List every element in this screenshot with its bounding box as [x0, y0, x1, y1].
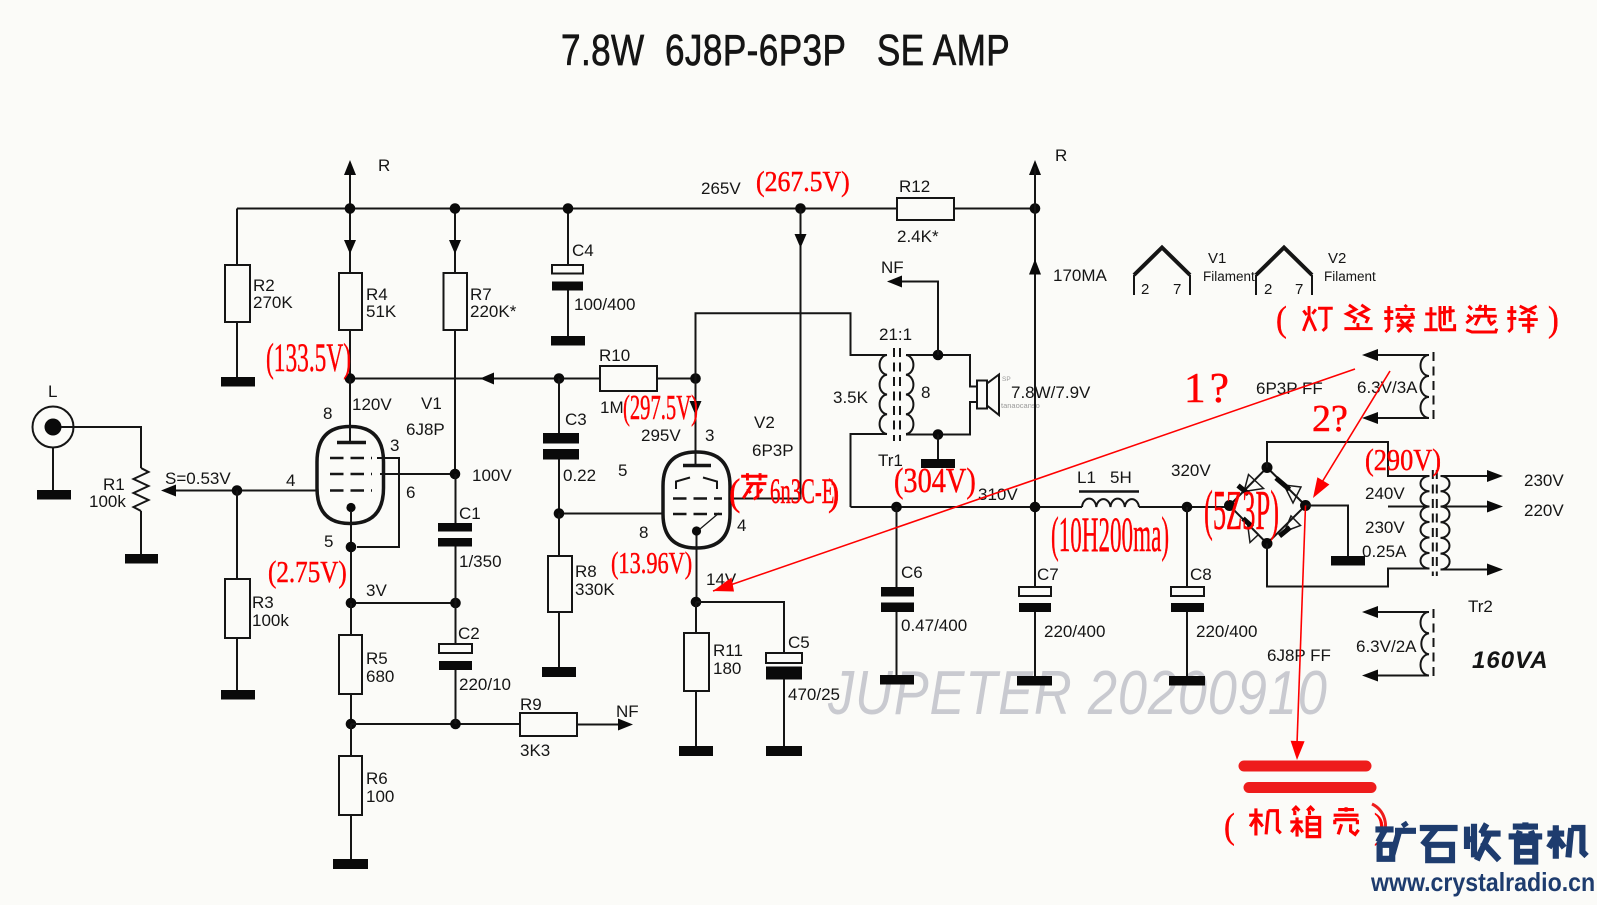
- svg-text:R6: R6: [366, 769, 388, 788]
- svg-text:470/25: 470/25: [788, 685, 840, 704]
- V2 plate bar: [683, 464, 711, 468]
- svg-text:6J8P: 6J8P: [406, 420, 445, 439]
- V1 grid dashes row1: [330, 457, 372, 460]
- V1 grid dashes row2: [330, 473, 372, 476]
- diode D4 lower-right: [1285, 516, 1301, 532]
- ground under R1: [125, 554, 158, 564]
- wire bus down to C4: [567, 209, 569, 266]
- wire R3 to ground: [236, 638, 238, 690]
- svg-text:JUPETER 20200910: JUPETER 20200910: [827, 659, 1328, 728]
- svg-text:7.8W/7.9V: 7.8W/7.9V: [1011, 383, 1091, 402]
- svg-text:C2: C2: [458, 624, 480, 643]
- svg-text:R11: R11: [713, 641, 743, 660]
- wire NF tap up from secondary: [901, 282, 938, 356]
- svg-text:R5: R5: [366, 649, 388, 668]
- V2 beam plates: [676, 478, 690, 490]
- wire R11 to ground: [695, 691, 697, 746]
- svg-text:2?: 2?: [1312, 398, 1348, 440]
- resistor R10: [600, 366, 657, 391]
- wire Tr1 primary bottom to 310V bus: [851, 434, 887, 507]
- wire cathode node to C1/C2 column: [351, 602, 456, 604]
- wire Tr1 secondary top to speaker: [906, 355, 978, 387]
- wire R5 to lower node: [350, 694, 352, 724]
- ground under C8: [1169, 676, 1205, 686]
- wire 310V bus: [851, 506, 1083, 508]
- svg-text:230V: 230V: [1365, 518, 1405, 537]
- svg-text:): ): [828, 471, 839, 513]
- svg-text:295V: 295V: [641, 426, 681, 445]
- svg-text:(304V): (304V): [894, 461, 976, 499]
- svg-text:4: 4: [286, 471, 295, 490]
- wire top B+ bus left segment: [237, 208, 897, 210]
- wire jack to R1 top: [61, 427, 141, 468]
- svg-text:0.47/400: 0.47/400: [901, 616, 967, 635]
- svg-text:3: 3: [705, 426, 714, 445]
- ground under R11: [679, 746, 713, 756]
- svg-text:R10: R10: [599, 346, 630, 365]
- V2 cathode dot: [692, 526, 701, 535]
- svg-text:240V: 240V: [1365, 484, 1405, 503]
- wire grid node down to R3: [236, 491, 238, 580]
- svg-text:0.22: 0.22: [563, 466, 596, 485]
- wire R7 bottom down to 100V node: [454, 330, 456, 474]
- svg-text:(5Z3P): (5Z3P): [1204, 480, 1279, 541]
- ground under jack: [37, 490, 71, 500]
- ground under C4: [551, 336, 585, 346]
- svg-text:(13.96V): (13.96V): [611, 545, 692, 579]
- resistor R11: [695, 602, 697, 633]
- svg-text:V1: V1: [1208, 250, 1226, 267]
- transformer Tr1 core: [893, 348, 895, 441]
- svg-text:C8: C8: [1190, 565, 1212, 584]
- ground under C6: [880, 675, 914, 685]
- svg-text:R: R: [378, 156, 390, 175]
- wire bridge right to chassis ground: [1306, 506, 1349, 557]
- V1 grid dashes row3: [330, 489, 372, 492]
- svg-text:Filament: Filament: [1324, 269, 1376, 284]
- svg-text:(290V): (290V): [1365, 443, 1441, 477]
- wire screen feed from bus down to V2: [730, 209, 801, 499]
- svg-text:V1: V1: [421, 394, 442, 413]
- svg-text:2.4K*: 2.4K*: [897, 227, 939, 246]
- wire jack ground: [52, 448, 54, 491]
- filament winding 6.3V/3A coil: [1421, 355, 1430, 418]
- wire grid node to V1 grid: [237, 490, 318, 492]
- speaker: [977, 381, 987, 409]
- wire bridge top to Tr2 HV top: [1267, 442, 1430, 476]
- logo red arc: [1372, 804, 1385, 838]
- transformer Tr1 primary winding: [880, 355, 887, 434]
- diode D3 upper-right: [1284, 485, 1301, 503]
- bridge vertex dots: [1224, 500, 1235, 511]
- V2 internal link: [700, 513, 719, 529]
- svg-text:2: 2: [1264, 281, 1272, 298]
- svg-text:(2.75V): (2.75V): [268, 556, 347, 590]
- V1 cathode dot: [346, 503, 355, 512]
- svg-text:1/350: 1/350: [459, 552, 502, 571]
- svg-text:C4: C4: [572, 241, 594, 260]
- diode D2 lower-left: [1248, 524, 1259, 543]
- resistor R12: [897, 198, 954, 220]
- svg-text:S=0.53V: S=0.53V: [165, 469, 231, 488]
- Tr2 mains taps with arrows: [1441, 475, 1488, 477]
- svg-text:100/400: 100/400: [574, 295, 635, 314]
- filament winding 6.3V/2A leads: [1378, 611, 1429, 613]
- svg-text:6.3V/3A: 6.3V/3A: [1357, 378, 1418, 397]
- svg-text:(: (: [1224, 806, 1235, 846]
- capacitor C8: [1186, 507, 1188, 587]
- svg-text:120V: 120V: [352, 395, 392, 414]
- node junction dots on bus: [345, 203, 356, 214]
- triode V1 6J8P envelope: [317, 427, 384, 524]
- svg-text:tanaocanso: tanaocanso: [1001, 401, 1040, 410]
- resistor R9: [520, 713, 577, 736]
- svg-text:160VA: 160VA: [1472, 647, 1549, 674]
- svg-text:(: (: [729, 471, 740, 513]
- resistor R6: [350, 724, 352, 756]
- svg-text:5: 5: [618, 461, 627, 480]
- wire bridge bottom to Tr2 HV bottom: [1267, 544, 1430, 587]
- pentode V2 6P3P envelope: [663, 452, 730, 548]
- node 14V: [691, 597, 702, 608]
- wire 133.5V node horizontal: [350, 378, 600, 380]
- svg-text:(133.5V): (133.5V): [266, 337, 351, 381]
- wire secondary bottom to ground: [937, 435, 939, 460]
- svg-text:1M: 1M: [600, 398, 624, 417]
- svg-text:V2: V2: [1328, 250, 1346, 267]
- wire bus down to R4 with arrow: [349, 209, 351, 274]
- svg-text:220V: 220V: [1524, 501, 1564, 520]
- svg-text:(267.5V): (267.5V): [756, 166, 850, 197]
- svg-text:1?: 1?: [1184, 366, 1233, 412]
- svg-text:NF: NF: [616, 702, 639, 721]
- svg-text:6n3C-E: 6n3C-E: [770, 472, 834, 511]
- svg-text:6P3P FF: 6P3P FF: [1256, 379, 1323, 398]
- wire lower node across to R9: [351, 723, 520, 725]
- svg-text:270K: 270K: [253, 293, 293, 312]
- ground under R8: [542, 667, 576, 677]
- transformer Tr1 secondary winding: [906, 355, 913, 434]
- svg-text:51K: 51K: [366, 302, 397, 321]
- ground under bridge minus: [1331, 556, 1365, 566]
- wire R2 to ground: [236, 322, 238, 377]
- svg-text:Filament: Filament: [1203, 269, 1255, 284]
- svg-text:6J8P FF: 6J8P FF: [1267, 646, 1331, 665]
- chassis bar 2: [1249, 782, 1371, 793]
- capacitor C6: [896, 507, 898, 587]
- svg-text:R12: R12: [899, 177, 930, 196]
- svg-text:3: 3: [390, 436, 399, 455]
- svg-text:C3: C3: [565, 410, 587, 429]
- wire plate node up and over to Tr1 primary top: [696, 313, 879, 378]
- svg-text:100V: 100V: [472, 466, 512, 485]
- svg-text:2: 2: [1141, 281, 1149, 298]
- V1 plate bar: [337, 441, 366, 445]
- svg-text:220K*: 220K*: [470, 302, 517, 321]
- svg-text:220/10: 220/10: [459, 675, 511, 694]
- V1 screen wire to 100V node: [380, 473, 455, 475]
- svg-text:(10H200ma): (10H200ma): [1051, 507, 1169, 562]
- resistor R2: [225, 265, 250, 322]
- V1 filament symbol: [1134, 248, 1190, 276]
- svg-text:C6: C6: [901, 563, 923, 582]
- svg-text:220/400: 220/400: [1196, 622, 1257, 641]
- svg-text:4: 4: [737, 516, 746, 535]
- svg-text:C5: C5: [788, 633, 810, 652]
- transformer Tr2 mains winding: [1441, 476, 1450, 570]
- svg-text:8: 8: [639, 523, 648, 542]
- svg-text:6.3V/2A: 6.3V/2A: [1356, 637, 1417, 656]
- svg-text:L1: L1: [1077, 468, 1096, 487]
- svg-text:220/400: 220/400: [1044, 622, 1105, 641]
- red annotation line 2: [1316, 371, 1390, 492]
- svg-text:Tr2: Tr2: [1468, 597, 1493, 616]
- V2 screen dashes: [673, 497, 722, 500]
- svg-text:(297.5V): (297.5V): [623, 389, 698, 428]
- wire bus down to R7 with arrow: [454, 209, 456, 274]
- V1 pin3 bracket to cathode: [357, 458, 399, 547]
- svg-text:100k: 100k: [89, 492, 126, 511]
- svg-text:7: 7: [1295, 281, 1303, 298]
- resistor R7: [444, 273, 468, 330]
- V2 filament symbol: [1256, 248, 1312, 276]
- svg-text:R8: R8: [575, 562, 597, 581]
- svg-text:320V: 320V: [1171, 461, 1211, 480]
- resistor R4: [339, 273, 362, 330]
- resistor R3: [225, 579, 250, 638]
- svg-text:5H: 5H: [1110, 468, 1132, 487]
- ground under R2: [221, 377, 255, 387]
- choke L1: [1082, 499, 1139, 507]
- svg-text:8: 8: [323, 404, 332, 423]
- svg-text:180: 180: [713, 659, 741, 678]
- svg-text:5: 5: [324, 532, 333, 551]
- wire R6 to ground: [350, 815, 352, 859]
- wire top B+ bus right segment: [954, 208, 1035, 210]
- ground under Tr1 secondary: [921, 459, 955, 468]
- wire 14V node to C5: [696, 602, 784, 653]
- V1 plate lead: [349, 379, 351, 442]
- wire 240V tap: [1388, 506, 1430, 508]
- svg-text:R: R: [1055, 146, 1067, 165]
- svg-text:): ): [1548, 299, 1559, 339]
- ground under C7: [1017, 676, 1052, 686]
- svg-text:100k: 100k: [252, 611, 289, 630]
- svg-text:7.8W 6J8P-6P3P SE AMP: 7.8W 6J8P-6P3P SE AMP: [561, 26, 1010, 74]
- wire Tr1 secondary bottom to speaker: [906, 402, 978, 435]
- transformer Tr2 core: [1432, 470, 1434, 576]
- svg-text:3V: 3V: [366, 581, 387, 600]
- svg-text:6P3P: 6P3P: [752, 441, 794, 460]
- wire bus corner down to R2: [236, 209, 238, 266]
- svg-text:C1: C1: [459, 504, 481, 523]
- svg-text:21:1: 21:1: [879, 325, 912, 344]
- svg-text:0.25A: 0.25A: [1362, 542, 1407, 561]
- svg-text:230V: 230V: [1524, 471, 1564, 490]
- resistor R5: [350, 603, 352, 635]
- chassis bar 1: [1244, 761, 1366, 772]
- svg-text:R3: R3: [252, 593, 274, 612]
- svg-text:6: 6: [406, 483, 415, 502]
- svg-text:V2: V2: [754, 413, 775, 432]
- svg-text:265V: 265V: [701, 179, 741, 198]
- filament winding 6.3V/2A coil: [1421, 612, 1430, 676]
- wire C3 node to V2 grid: [559, 513, 664, 515]
- wire plate node down to V2 plate with arrow: [695, 379, 697, 465]
- svg-text:8: 8: [921, 383, 930, 402]
- wire R4 bottom to 133.5V node: [349, 330, 351, 379]
- bridge rectifier 5Z3P edges: [1230, 468, 1306, 544]
- filament winding 6.3V/3A leads: [1378, 354, 1429, 356]
- node R arrow up left: [349, 172, 351, 209]
- wire R8 to ground: [558, 612, 560, 667]
- svg-text:C7: C7: [1037, 565, 1059, 584]
- svg-text:680: 680: [366, 667, 394, 686]
- wire R10 right to plate node: [657, 378, 696, 380]
- transformer Tr2 HV winding: [1420, 476, 1429, 569]
- potentiometer R1 zigzag: [134, 468, 149, 511]
- logo text kuangshi shouyinji: [1375, 822, 1416, 860]
- svg-text:3.5K: 3.5K: [833, 388, 869, 407]
- red annotation line 3 to chassis: [1297, 506, 1306, 745]
- V2 grid dashes: [673, 513, 722, 516]
- V2 cathode lead: [696, 535, 698, 602]
- svg-text:330K: 330K: [575, 580, 615, 599]
- wire R1 bottom to ground: [140, 511, 142, 554]
- svg-text:100: 100: [366, 787, 394, 806]
- svg-text:NF: NF: [881, 258, 904, 277]
- diode D1 upper-left: [1244, 475, 1264, 492]
- R1 wiper arrow: [174, 490, 237, 492]
- svg-text:3K3: 3K3: [520, 741, 550, 760]
- svg-text:7: 7: [1173, 281, 1181, 298]
- wire R9 to NF arrow: [577, 724, 619, 726]
- svg-text:L: L: [48, 382, 57, 401]
- svg-text:(: (: [1276, 299, 1287, 339]
- red annotation line 1: [713, 369, 1355, 591]
- resistor R8: [558, 514, 560, 557]
- wire main B+ vertical: [1034, 209, 1036, 588]
- svg-text:www.crystalradio.cn: www.crystalradio.cn: [1370, 869, 1595, 898]
- svg-text:170MA: 170MA: [1053, 266, 1108, 285]
- svg-text:SP: SP: [1002, 376, 1011, 383]
- ground under R6: [333, 859, 368, 869]
- ground under C5: [766, 746, 802, 756]
- ground under R3: [221, 690, 255, 700]
- svg-text:R9: R9: [520, 695, 542, 714]
- V1 cathode lead: [350, 511, 352, 603]
